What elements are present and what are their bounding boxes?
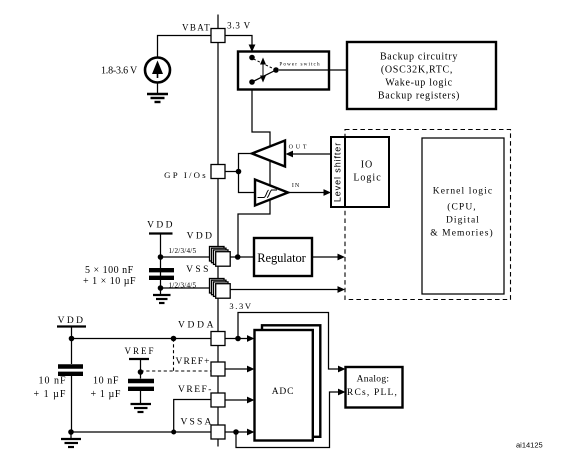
wire VSSA around ADC to analog block <box>236 392 339 448</box>
node regulator input junction <box>235 254 241 260</box>
svg-text:VDD: VDD <box>187 232 215 242</box>
svg-text:ai14125: ai14125 <box>516 441 543 450</box>
node bottom rail VREF- junction <box>171 430 176 435</box>
wire 3.3V to analog block <box>238 313 339 370</box>
svg-text:Wake-up logic: Wake-up logic <box>385 78 452 89</box>
ground (battery) <box>147 83 168 103</box>
dashed low-voltage domain box <box>345 130 511 300</box>
wire VREF- pin to bottom rail <box>174 400 211 433</box>
pin stack VDD (5 pins) <box>210 247 231 267</box>
wire pin column stub below VSSA <box>217 439 219 447</box>
svg-text:Digital: Digital <box>446 216 480 226</box>
wire pin column VREF+ to VREF- <box>217 376 219 393</box>
wire pin column VREF- to VSSA <box>217 407 219 425</box>
hysteresis symbol <box>258 190 278 198</box>
svg-text:Power switch: Power switch <box>279 62 320 68</box>
wire junction down through capacitors <box>160 257 162 288</box>
backup circuitry block <box>347 42 496 109</box>
svg-text:+ 1 µF: + 1 µF <box>34 389 67 400</box>
power switch box <box>238 52 329 90</box>
schmitt trigger input buffer (points right) <box>255 180 288 206</box>
node VDDA rail left junction <box>69 336 75 342</box>
svg-text:IO: IO <box>361 160 374 171</box>
svg-text:VBAT: VBAT <box>182 23 211 33</box>
svg-text:10 nF: 10 nF <box>39 376 67 387</box>
wire main pin column VDD stack to VSS stack <box>217 266 219 280</box>
power switch contacts and lever <box>249 55 279 85</box>
node VDDA pin junction <box>235 336 241 342</box>
node below capacitors <box>158 285 164 291</box>
wire supply rail from power switch down to VDD junction <box>238 89 270 257</box>
wire VBAT to power switch with arrow <box>225 36 252 46</box>
wire bottom rail <box>71 431 211 433</box>
ground (VREF) <box>131 391 152 412</box>
ADC block (front) <box>255 330 313 441</box>
wire main pin column GPIO to VDD pin stack <box>217 179 219 248</box>
wire left cap to bottom rail <box>71 376 73 432</box>
capacitor 10nF+1uF (left) <box>58 367 83 374</box>
svg-text:OUT: OUT <box>289 145 310 151</box>
svg-text:& Memories): & Memories) <box>430 228 494 239</box>
wire terminal junction to VDD pin stack <box>161 256 212 258</box>
wire VDD stack to regulator junction <box>230 256 254 258</box>
wire VSSA pin to ADC with arrow <box>225 431 248 433</box>
svg-text:VDDA: VDDA <box>178 321 216 331</box>
wire main pin column stub above VBAT <box>217 15 219 29</box>
svg-text:VREF: VREF <box>124 346 155 356</box>
svg-text:(OSC32K,RTC,: (OSC32K,RTC, <box>381 65 453 76</box>
node VDD terminal junction <box>158 254 164 260</box>
svg-text:Backup circuitry: Backup circuitry <box>380 52 458 63</box>
op-amp style output buffer (points left) <box>252 141 285 167</box>
VREF terminal <box>124 346 155 372</box>
wire power switch to backup circuitry <box>279 69 347 71</box>
level shifter block <box>331 137 345 207</box>
svg-text:1/2/3/4/5: 1/2/3/4/5 <box>169 247 197 255</box>
svg-text:Backup registers): Backup registers) <box>378 91 460 102</box>
svg-text:GP I/Os: GP I/Os <box>164 170 208 180</box>
wire junction to schmitt input <box>239 172 256 193</box>
wire VDDA rail <box>72 338 212 340</box>
svg-text:Analog:: Analog: <box>357 375 390 385</box>
wire main pin column VSS stack to VDDA <box>217 298 219 332</box>
ADC block (stacked, back) <box>262 325 320 437</box>
wire ground junction to VSS pin stack <box>161 287 212 289</box>
wire main pin column VBAT to GPIO <box>217 43 219 165</box>
node VREF junction <box>138 369 144 375</box>
svg-text:IN: IN <box>292 183 300 189</box>
capacitor 10nF+1uF (VREF) <box>140 372 142 379</box>
wire pin column VDDA to VREF+ <box>217 346 219 363</box>
svg-text:3.3V: 3.3V <box>229 301 252 311</box>
svg-text:RCs, PLL,: RCs, PLL, <box>347 388 398 398</box>
pin VSSA <box>211 425 225 439</box>
pin VREF+ <box>211 362 225 376</box>
battery current source symbol <box>145 58 170 83</box>
pin VBAT <box>211 29 225 43</box>
ground (bottom-left) <box>61 432 81 447</box>
ground (mid) <box>153 288 171 303</box>
regulator block <box>254 238 312 276</box>
svg-text:VSSA: VSSA <box>181 418 214 428</box>
svg-text:5 × 100 nF: 5 × 100 nF <box>85 265 134 276</box>
IO logic block <box>345 137 389 207</box>
pin stack VSS (5 pins) <box>210 279 231 299</box>
wire VREF+ pin to ADC with arrow <box>225 368 248 370</box>
svg-text:+ 1 × 10 µF: + 1 × 10 µF <box>83 276 136 287</box>
wire regulator to kernel domain with arrow <box>312 256 339 258</box>
svg-text:+ 1 µF: + 1 µF <box>91 389 122 400</box>
dashed wire VDDA to VREF+ <box>173 339 175 372</box>
pin GPIOs <box>211 165 225 179</box>
capacitor bank 5x100nF+10uF <box>149 270 174 278</box>
svg-text:VREF-: VREF- <box>178 385 213 395</box>
wire GPIO to junction <box>225 171 239 173</box>
node GPIO junction <box>236 169 242 175</box>
wire battery to VBAT pin <box>158 36 212 58</box>
wire VREF- pin to ADC with arrow <box>225 399 248 401</box>
svg-text:VDD: VDD <box>58 316 86 326</box>
pin VDDA <box>211 332 225 346</box>
svg-text:10 nF: 10 nF <box>93 376 119 387</box>
node bottom rail left junction <box>68 429 74 435</box>
svg-text:1.8-3.6 V: 1.8-3.6 V <box>101 66 138 77</box>
svg-text:Logic: Logic <box>353 173 381 184</box>
node VDDA rail mid junction <box>171 336 177 342</box>
wire schmitt to level shifter with right arrow <box>288 192 325 194</box>
svg-text:Regulator: Regulator <box>257 251 306 265</box>
node VSSA pin junction <box>233 429 239 435</box>
pin VREF- <box>211 393 225 407</box>
svg-text:ADC: ADC <box>272 387 294 397</box>
analog block <box>346 367 403 408</box>
dashed wire VREF to VREF+ pin <box>141 370 212 372</box>
wire VDDA pin to ADC with arrow <box>225 338 248 340</box>
svg-text:VSS: VSS <box>186 265 211 275</box>
kernel logic block <box>422 138 504 294</box>
VDD terminal (bottom-left) <box>57 316 86 339</box>
svg-text:VREF+: VREF+ <box>176 357 211 367</box>
wire left cap stem <box>71 339 73 365</box>
wire junction to output buffer apex <box>239 154 253 172</box>
svg-text:3.3 V: 3.3 V <box>227 21 251 31</box>
svg-text:VDD: VDD <box>147 221 175 231</box>
wire level shifter to output buffer with left arrow <box>292 153 331 155</box>
svg-text:Level shifter: Level shifter <box>333 142 343 202</box>
svg-text:Kernel logic: Kernel logic <box>433 187 493 197</box>
wire VSS stack to kernel domain with arrow <box>230 289 338 291</box>
VDD terminal (mid-left) <box>147 221 175 258</box>
svg-text:(CPU,: (CPU, <box>447 202 477 213</box>
